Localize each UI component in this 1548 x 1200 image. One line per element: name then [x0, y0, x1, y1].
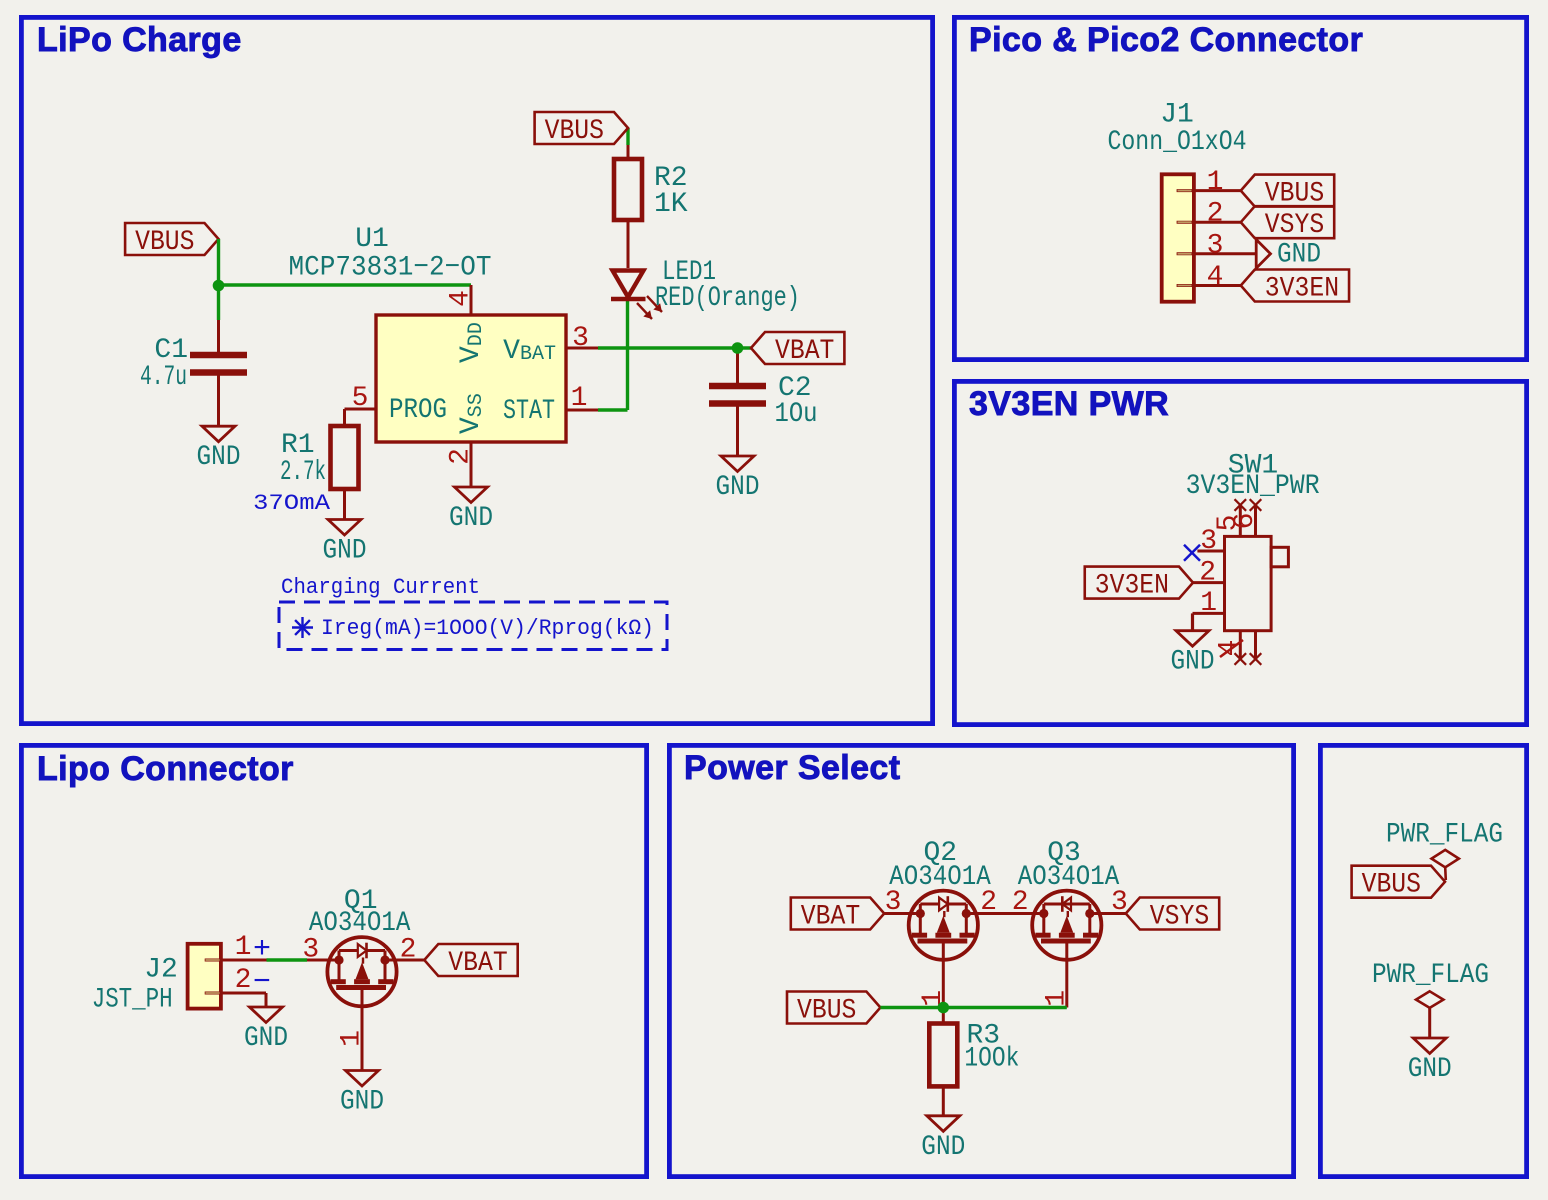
- svg-text:STAT: STAT: [503, 396, 555, 427]
- svg-text:VBUS: VBUS: [545, 116, 604, 147]
- svg-text:1: 1: [235, 932, 252, 963]
- svg-text:3V3EN PWR: 3V3EN PWR: [969, 385, 1169, 423]
- svg-text:2: 2: [235, 965, 252, 996]
- svg-text:Ireg(mA)=1OOO(V)/Rprog(kΩ): Ireg(mA)=1OOO(V)/Rprog(kΩ): [321, 616, 654, 641]
- svg-text:2: 2: [446, 448, 477, 465]
- svg-text:5: 5: [352, 383, 369, 414]
- svg-text:2: 2: [980, 887, 997, 918]
- svg-text:VBUS: VBUS: [135, 227, 194, 258]
- svg-text:3: 3: [1207, 230, 1224, 261]
- svg-text:3V3EN_PWR: 3V3EN_PWR: [1186, 471, 1320, 502]
- svg-text:GND: GND: [1408, 1054, 1452, 1085]
- svg-text:VBAT: VBAT: [775, 336, 834, 367]
- svg-text:GND: GND: [921, 1132, 965, 1163]
- svg-text:3: 3: [1200, 526, 1217, 557]
- svg-text:2: 2: [1012, 887, 1029, 918]
- svg-text:3: 3: [572, 323, 589, 354]
- svg-text:+: +: [253, 933, 271, 967]
- svg-text:LiPo Charge: LiPo Charge: [37, 21, 242, 59]
- svg-text:3V3EN: 3V3EN: [1265, 274, 1339, 305]
- svg-text:3V3EN: 3V3EN: [1095, 571, 1169, 602]
- svg-text:37OmA: 37OmA: [253, 491, 331, 516]
- svg-text:1: 1: [1200, 588, 1217, 619]
- svg-text:GND: GND: [340, 1087, 384, 1118]
- svg-text:GND: GND: [1171, 647, 1215, 678]
- svg-text:AO34O1A: AO34O1A: [309, 908, 411, 939]
- svg-text:1OOk: 1OOk: [964, 1043, 1019, 1074]
- svg-text:−: −: [253, 966, 271, 1000]
- svg-text:AO34O1A: AO34O1A: [1018, 862, 1120, 893]
- svg-text:J1: J1: [1160, 100, 1194, 131]
- svg-text:2.7k: 2.7k: [280, 457, 326, 488]
- svg-text:U1: U1: [355, 224, 389, 255]
- svg-text:GND: GND: [449, 503, 493, 534]
- svg-text:Lipo Connector: Lipo Connector: [37, 750, 294, 788]
- svg-text:MCP73831−2−OT: MCP73831−2−OT: [289, 253, 492, 284]
- svg-text:Power Select: Power Select: [684, 749, 900, 787]
- svg-text:6: 6: [1230, 513, 1261, 530]
- svg-text:VBUS: VBUS: [1362, 870, 1421, 901]
- svg-text:4: 4: [1207, 262, 1224, 293]
- svg-text:2: 2: [400, 935, 417, 966]
- svg-text:PWR_FLAG: PWR_FLAG: [1372, 960, 1489, 991]
- svg-text:J2: J2: [144, 955, 178, 986]
- svg-text:2: 2: [1207, 199, 1224, 230]
- svg-text:2: 2: [1199, 558, 1216, 589]
- svg-text:VSYS: VSYS: [1150, 902, 1209, 933]
- svg-text:GND: GND: [244, 1023, 288, 1054]
- svg-text:1: 1: [1041, 990, 1072, 1007]
- svg-text:VBAT: VBAT: [448, 948, 507, 979]
- svg-text:VSYS: VSYS: [1265, 210, 1324, 241]
- svg-text:3: 3: [885, 887, 902, 918]
- svg-text:Charging Current: Charging Current: [281, 575, 480, 600]
- svg-text:1: 1: [1207, 167, 1224, 198]
- svg-text:1K: 1K: [654, 189, 688, 220]
- svg-text:AO34O1A: AO34O1A: [889, 862, 991, 893]
- svg-text:PWR_FLAG: PWR_FLAG: [1386, 820, 1503, 851]
- svg-text:1Ou: 1Ou: [775, 399, 818, 430]
- svg-text:VBUS: VBUS: [797, 996, 856, 1027]
- svg-text:VBAT: VBAT: [801, 902, 860, 933]
- svg-text:3: 3: [302, 935, 319, 966]
- svg-text:4: 4: [446, 290, 477, 307]
- svg-text:Conn_O1xO4: Conn_O1xO4: [1108, 127, 1247, 158]
- svg-text:GND: GND: [716, 472, 760, 503]
- svg-text:PROG: PROG: [389, 395, 447, 426]
- svg-text:Pico & Pico2 Connector: Pico & Pico2 Connector: [969, 21, 1363, 59]
- svg-text:3: 3: [1111, 887, 1128, 918]
- svg-text:GND: GND: [197, 442, 241, 473]
- svg-text:JST_PH: JST_PH: [92, 985, 173, 1016]
- svg-text:1: 1: [337, 1030, 368, 1047]
- svg-text:GND: GND: [1277, 240, 1321, 271]
- svg-text:RED(Orange): RED(Orange): [655, 283, 800, 314]
- svg-text:1: 1: [571, 383, 588, 414]
- svg-text:4.7u: 4.7u: [140, 362, 187, 393]
- svg-text:GND: GND: [323, 536, 367, 567]
